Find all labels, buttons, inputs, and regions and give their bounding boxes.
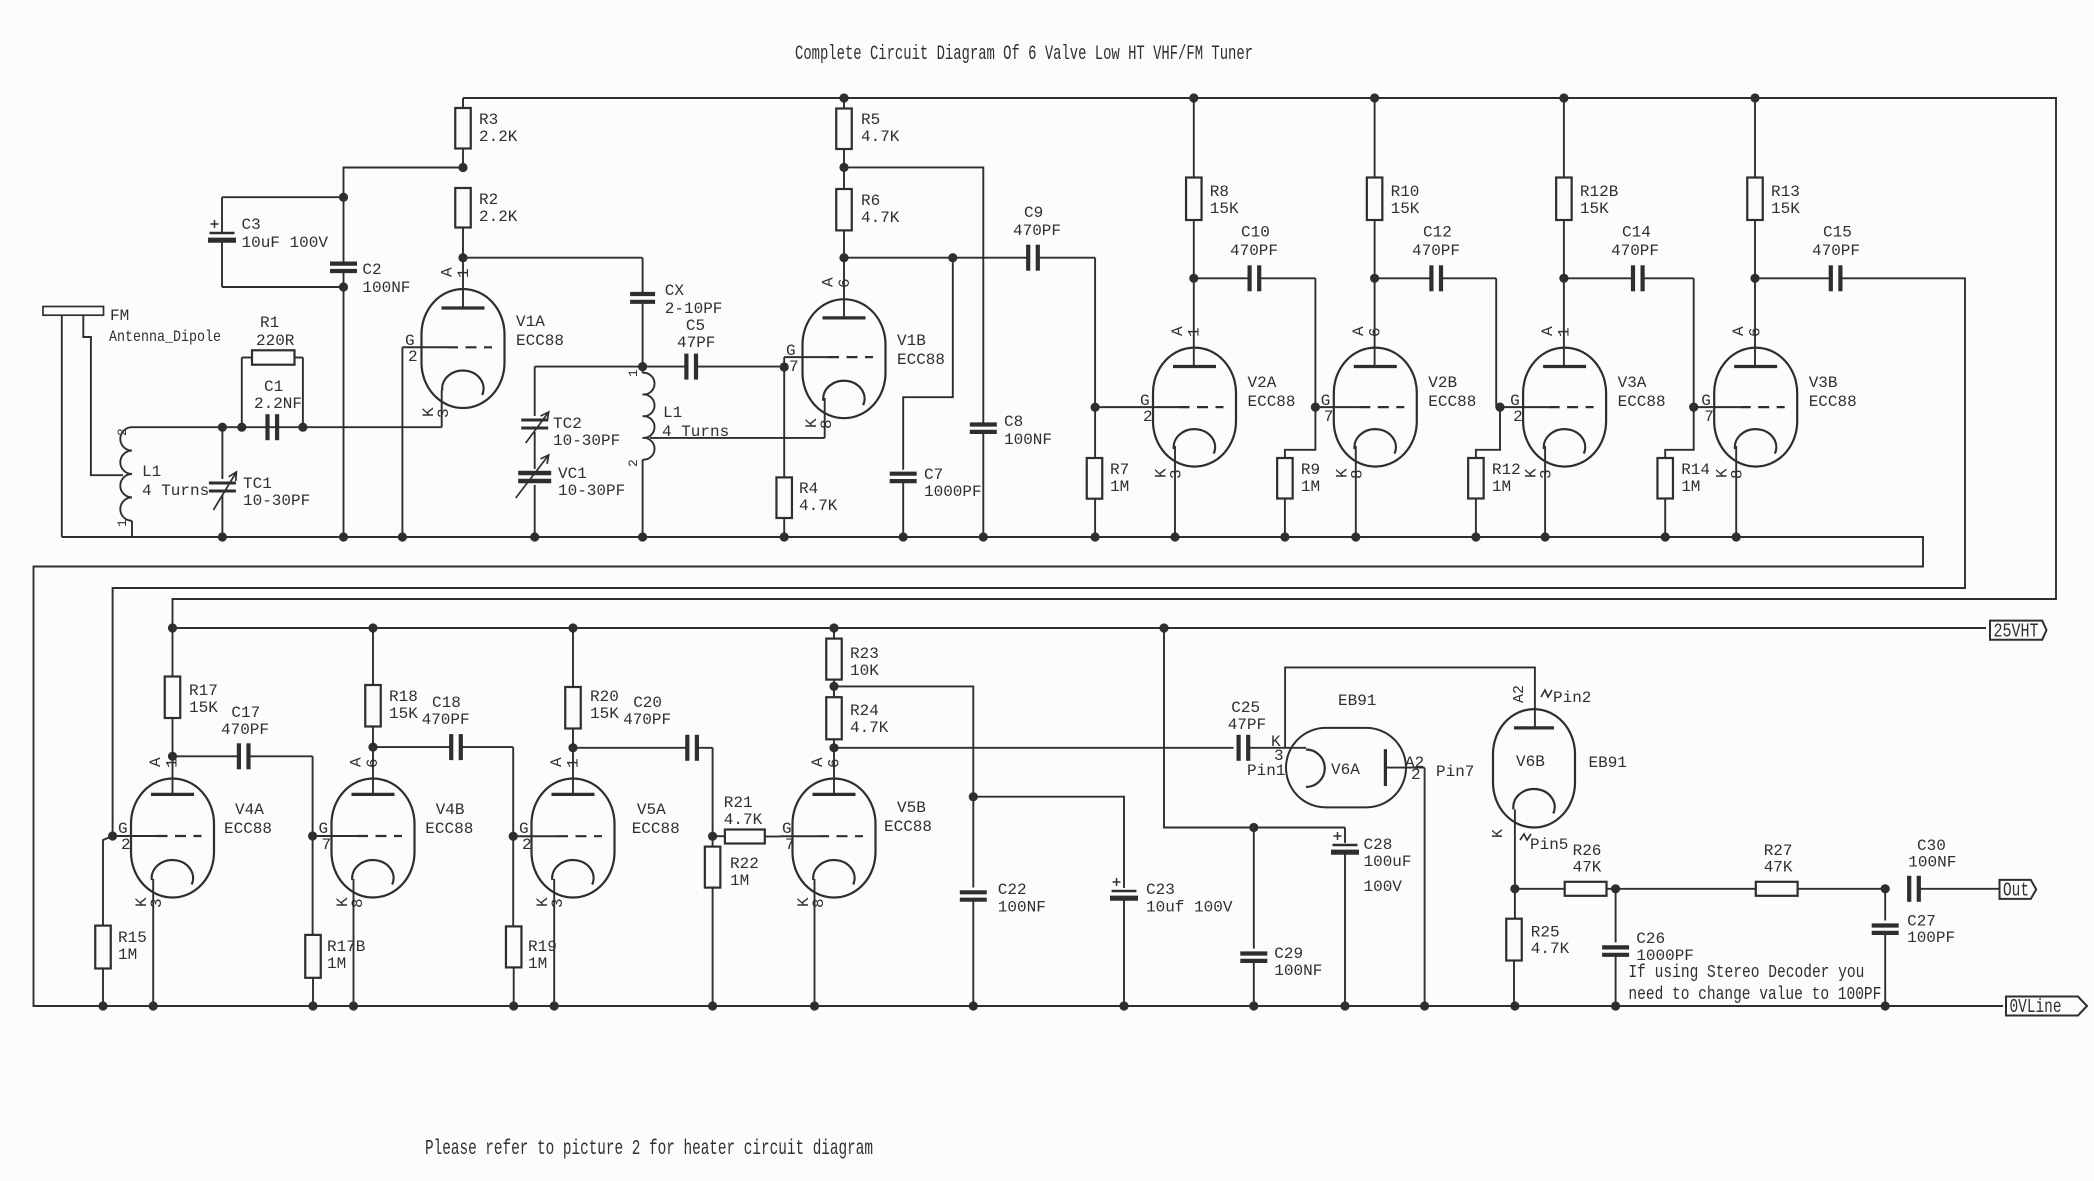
wire V6A anode to 0V bbox=[1424, 768, 1426, 1006]
wire V6B cathode bbox=[1514, 810, 1516, 889]
svg-text:R26: R26 bbox=[1573, 842, 1602, 860]
svg-text:Out: Out bbox=[2003, 880, 2029, 902]
svg-text:C18: C18 bbox=[432, 694, 461, 712]
capacitor C26 1000PF bbox=[1615, 889, 1617, 943]
svg-text:C29: C29 bbox=[1274, 945, 1303, 963]
svg-text:A: A bbox=[1169, 326, 1187, 336]
node dot V1A anode bbox=[458, 253, 467, 262]
triode V4B ECC88 bbox=[332, 779, 415, 898]
svg-text:100NF: 100NF bbox=[998, 899, 1046, 917]
svg-text:C5: C5 bbox=[686, 317, 705, 335]
svg-text:R10: R10 bbox=[1391, 183, 1420, 201]
node dot V4A grid bbox=[108, 831, 117, 840]
resistor R21 4.7K bbox=[713, 835, 725, 837]
capacitor C1 2.2NF bbox=[265, 414, 269, 440]
wire C12 to next grid bbox=[1495, 278, 1497, 407]
svg-text:470PF: 470PF bbox=[1812, 242, 1860, 260]
node dot V2B anode bbox=[1370, 274, 1379, 283]
wire CX node to TC2 bbox=[535, 366, 643, 368]
svg-text:7: 7 bbox=[789, 358, 799, 376]
node dot V4B grid bbox=[308, 831, 317, 840]
svg-text:4.7K: 4.7K bbox=[724, 811, 763, 829]
svg-text:R8: R8 bbox=[1210, 183, 1229, 201]
svg-text:1M: 1M bbox=[1492, 478, 1511, 496]
svg-text:Please refer to picture 2 for: Please refer to picture 2 for heater cir… bbox=[425, 1138, 873, 1161]
svg-text:7: 7 bbox=[1324, 408, 1334, 426]
svg-text:R3: R3 bbox=[479, 111, 498, 129]
svg-text:C30: C30 bbox=[1917, 837, 1946, 855]
triode V2A ECC88 bbox=[1153, 348, 1236, 467]
wire B+ rail to C28/C29 bbox=[1159, 623, 1168, 632]
svg-text:1000PF: 1000PF bbox=[924, 483, 982, 501]
svg-text:470PF: 470PF bbox=[422, 711, 470, 729]
svg-text:10uF 100V: 10uF 100V bbox=[242, 234, 329, 252]
svg-text:ECC88: ECC88 bbox=[516, 332, 564, 350]
capacitor C9 470PF bbox=[1026, 245, 1030, 271]
svg-text:R20: R20 bbox=[590, 688, 619, 706]
svg-text:6: 6 bbox=[826, 758, 844, 768]
svg-text:C27: C27 bbox=[1907, 913, 1936, 931]
svg-text:C14: C14 bbox=[1622, 224, 1651, 242]
wire V1A cathode bbox=[441, 390, 443, 427]
resistor R8 15K bbox=[1193, 98, 1195, 178]
svg-text:0VLine: 0VLine bbox=[2010, 996, 2062, 1018]
svg-text:C3: C3 bbox=[242, 216, 261, 234]
wire C14 to next grid bbox=[1693, 278, 1695, 407]
capacitor C5 47PF bbox=[643, 366, 687, 368]
svg-text:3: 3 bbox=[435, 408, 453, 418]
resistor R18 15K bbox=[368, 623, 377, 632]
wire R3/R2 junction to C3/C2 bbox=[344, 168, 464, 198]
node dot C29 branch bbox=[1249, 823, 1258, 832]
wire V1B anode to C9 bbox=[844, 257, 1028, 259]
svg-text:R12B: R12B bbox=[1580, 183, 1618, 201]
wire V3B cathode to ground bus bbox=[1735, 446, 1737, 537]
node dot V5B anode bbox=[829, 743, 838, 752]
svg-text:V5B: V5B bbox=[897, 799, 926, 817]
node dot CX bottom bbox=[638, 362, 647, 371]
node dot V2A anode bbox=[1189, 274, 1198, 283]
wire V4A cathode to 0V bbox=[152, 879, 154, 1006]
svg-text:1: 1 bbox=[1556, 327, 1574, 337]
svg-text:R17: R17 bbox=[189, 682, 218, 700]
svg-text:V3B: V3B bbox=[1809, 374, 1838, 392]
svg-text:CX: CX bbox=[665, 282, 685, 300]
capacitor C10 470PF bbox=[1194, 277, 1250, 279]
svg-text:1M: 1M bbox=[118, 946, 137, 964]
capacitor C29 100NF bbox=[1253, 828, 1255, 949]
capacitor C12 470PF bbox=[1375, 277, 1432, 279]
wire R24 junction to C25 bbox=[834, 747, 1234, 749]
svg-text:47PF: 47PF bbox=[1228, 716, 1266, 734]
svg-text:1: 1 bbox=[626, 369, 641, 377]
wire V1B grid jog bbox=[783, 357, 785, 367]
svg-text:15K: 15K bbox=[1210, 200, 1239, 218]
net flag 25VHT bbox=[1990, 621, 2047, 640]
svg-text:15K: 15K bbox=[1771, 200, 1800, 218]
capacitor C22 100NF bbox=[972, 797, 974, 888]
capacitor C15 470PF bbox=[1755, 277, 1831, 279]
svg-text:V2B: V2B bbox=[1428, 374, 1457, 392]
svg-text:C8: C8 bbox=[1004, 413, 1023, 431]
svg-text:A: A bbox=[820, 277, 838, 287]
wire L1 top to C1 node bbox=[132, 426, 222, 428]
svg-text:C10: C10 bbox=[1241, 224, 1270, 242]
svg-text:C9: C9 bbox=[1024, 204, 1043, 222]
svg-text:1: 1 bbox=[115, 519, 130, 527]
svg-text:4.7K: 4.7K bbox=[850, 719, 889, 737]
resistor R17B 1M bbox=[312, 836, 314, 935]
node dot C7 branch bbox=[948, 253, 957, 262]
svg-text:6: 6 bbox=[1747, 327, 1765, 337]
node dot V2A grid bbox=[1091, 403, 1100, 412]
svg-text:470PF: 470PF bbox=[623, 711, 671, 729]
capacitor C18 470PF bbox=[373, 746, 451, 748]
svg-text:If using Stereo Decoder you: If using Stereo Decoder you bbox=[1628, 963, 1864, 983]
svg-text:A2: A2 bbox=[1511, 685, 1528, 703]
svg-text:1M: 1M bbox=[1301, 478, 1320, 496]
svg-text:V1A: V1A bbox=[516, 313, 545, 331]
svg-text:R23: R23 bbox=[850, 645, 879, 663]
antenna FM dipole bbox=[43, 307, 104, 316]
svg-text:4 Turns: 4 Turns bbox=[142, 482, 209, 500]
resistor R23 10K bbox=[829, 623, 838, 632]
wire V2A cathode to ground bus bbox=[1174, 446, 1176, 537]
svg-text:6: 6 bbox=[364, 758, 382, 768]
node dot V3B grid bbox=[1689, 403, 1698, 412]
svg-text:L1: L1 bbox=[142, 463, 161, 481]
wire C2 bottom to ground bus bbox=[343, 287, 345, 537]
resistor R9 1M bbox=[1285, 407, 1316, 458]
svg-text:V1B: V1B bbox=[897, 332, 926, 350]
svg-text:7: 7 bbox=[1704, 408, 1714, 426]
svg-text:100V: 100V bbox=[1364, 878, 1403, 896]
resistor R24 4.7K bbox=[826, 697, 842, 739]
trimmer capacitor TC2 10-30PF bbox=[534, 367, 536, 416]
resistor R4 4.7K bbox=[783, 367, 785, 477]
trimmer capacitor TC1 10-30PF bbox=[221, 427, 223, 479]
svg-text:VC1: VC1 bbox=[558, 465, 587, 483]
svg-text:4.7K: 4.7K bbox=[1531, 940, 1570, 958]
net flag 0VLine bbox=[2006, 997, 2087, 1016]
svg-text:Antenna_Dipole: Antenna_Dipole bbox=[109, 328, 221, 346]
resistor R7 1M bbox=[1094, 407, 1096, 458]
node dot V5B grid network bbox=[708, 832, 717, 841]
svg-text:1M: 1M bbox=[327, 955, 346, 973]
node dot V6B cathode bbox=[1510, 884, 1519, 893]
resistor R14 1M bbox=[1665, 407, 1694, 458]
svg-text:47PF: 47PF bbox=[677, 334, 715, 352]
wire feedback line C15 output to V4A grid bbox=[113, 278, 1965, 836]
svg-text:470PF: 470PF bbox=[1013, 222, 1061, 240]
triode V5A ECC88 bbox=[532, 779, 615, 898]
svg-text:100NF: 100NF bbox=[362, 279, 410, 297]
svg-text:220R: 220R bbox=[256, 332, 295, 350]
svg-text:10-30PF: 10-30PF bbox=[243, 492, 310, 510]
svg-text:ECC88: ECC88 bbox=[897, 351, 945, 369]
svg-text:100NF: 100NF bbox=[1908, 854, 1956, 872]
wire V1A anode to CX bbox=[463, 257, 643, 259]
svg-text:R5: R5 bbox=[861, 111, 880, 129]
svg-text:V4B: V4B bbox=[436, 801, 465, 819]
svg-text:A: A bbox=[439, 267, 457, 277]
svg-text:C2: C2 bbox=[362, 261, 381, 279]
svg-text:V4A: V4A bbox=[235, 801, 264, 819]
capacitor C30 100NF bbox=[1907, 876, 1911, 902]
capacitor C2 100NF bbox=[343, 197, 345, 263]
svg-text:A: A bbox=[348, 757, 366, 767]
svg-text:R27: R27 bbox=[1764, 842, 1793, 860]
inductor L1 4 turns interstage bbox=[643, 373, 655, 460]
resistor R17 15K bbox=[168, 623, 177, 632]
node dot V1B anode bbox=[839, 253, 848, 262]
svg-text:6: 6 bbox=[1366, 327, 1384, 337]
svg-text:10-30PF: 10-30PF bbox=[553, 432, 620, 450]
node dot R27/C27/C30 bbox=[1881, 884, 1890, 893]
resistor R20 15K bbox=[568, 623, 577, 632]
resistor R10 15K bbox=[1374, 98, 1376, 178]
svg-text:100uF: 100uF bbox=[1364, 853, 1412, 871]
svg-text:2.2K: 2.2K bbox=[479, 128, 518, 146]
svg-text:R12: R12 bbox=[1492, 461, 1521, 479]
svg-text:A: A bbox=[1539, 326, 1557, 336]
node dot R23/R24 junction bbox=[829, 682, 838, 691]
wire C7 branch bbox=[903, 258, 953, 470]
svg-text:C12: C12 bbox=[1423, 224, 1452, 242]
svg-text:V6B: V6B bbox=[1516, 753, 1545, 771]
svg-text:4.7K: 4.7K bbox=[799, 497, 838, 515]
svg-text:R2: R2 bbox=[479, 191, 498, 209]
triode V1B ECC88 bbox=[803, 299, 886, 418]
svg-text:Pin7: Pin7 bbox=[1436, 763, 1474, 781]
svg-text:R19: R19 bbox=[528, 938, 557, 956]
svg-text:3: 3 bbox=[1538, 469, 1556, 479]
svg-text:K: K bbox=[1490, 829, 1507, 838]
resistor R27 47K bbox=[1756, 882, 1798, 896]
svg-text:100NF: 100NF bbox=[1274, 962, 1322, 980]
node dot V3B anode bbox=[1750, 274, 1759, 283]
wire ground bus top section with wrap to 0V line bbox=[34, 537, 2004, 1006]
resistor R15 1M bbox=[103, 836, 113, 926]
node dot V3A anode bbox=[1559, 274, 1568, 283]
svg-text:1M: 1M bbox=[730, 872, 749, 890]
svg-text:C26: C26 bbox=[1636, 930, 1665, 948]
svg-text:FM: FM bbox=[110, 307, 129, 325]
wire V5A cathode to 0V bbox=[553, 879, 555, 1006]
svg-text:8: 8 bbox=[1348, 469, 1366, 479]
wire V5B cathode to 0V bbox=[814, 879, 816, 1006]
svg-text:R7: R7 bbox=[1110, 461, 1129, 479]
svg-text:R13: R13 bbox=[1771, 183, 1800, 201]
svg-text:2: 2 bbox=[522, 836, 532, 854]
node dot V5A grid bbox=[509, 832, 518, 841]
triode V1A ECC88 bbox=[422, 289, 505, 408]
capacitor C17 470PF bbox=[173, 755, 239, 757]
resistor R12 1M bbox=[1476, 407, 1500, 458]
triode V2B ECC88 bbox=[1334, 348, 1417, 467]
capacitor C20 470PF bbox=[573, 747, 687, 749]
node dot V4B anode bbox=[368, 743, 377, 752]
svg-text:7: 7 bbox=[785, 836, 795, 854]
svg-text:100NF: 100NF bbox=[1004, 431, 1052, 449]
svg-text:TC2: TC2 bbox=[553, 415, 582, 433]
wire HT top bus bbox=[173, 98, 2057, 628]
svg-text:C20: C20 bbox=[633, 694, 662, 712]
svg-text:10-30PF: 10-30PF bbox=[558, 482, 625, 500]
svg-text:25VHT: 25VHT bbox=[1994, 620, 2039, 642]
svg-text:R6: R6 bbox=[861, 192, 880, 210]
svg-text:470PF: 470PF bbox=[1611, 242, 1659, 260]
svg-text:R22: R22 bbox=[730, 855, 759, 873]
wire V1B cathode to L1 tap bbox=[824, 398, 826, 438]
capacitor C28 100uF 100V electrolytic bbox=[1344, 828, 1346, 844]
svg-text:R24: R24 bbox=[850, 702, 879, 720]
resistor R22 1M bbox=[712, 836, 714, 846]
svg-text:15K: 15K bbox=[189, 699, 218, 717]
svg-text:ECC88: ECC88 bbox=[632, 820, 680, 838]
svg-text:2: 2 bbox=[1513, 408, 1523, 426]
node dot L1/TC1/C1 bbox=[218, 423, 227, 432]
svg-text:C22: C22 bbox=[998, 881, 1027, 899]
svg-text:47K: 47K bbox=[1573, 859, 1602, 877]
svg-text:R14: R14 bbox=[1681, 461, 1710, 479]
svg-text:ECC88: ECC88 bbox=[884, 818, 932, 836]
svg-text:2: 2 bbox=[626, 459, 641, 467]
svg-text:15K: 15K bbox=[1580, 200, 1609, 218]
svg-text:3: 3 bbox=[1168, 469, 1186, 479]
svg-text:V3A: V3A bbox=[1618, 374, 1647, 392]
svg-text:EB91: EB91 bbox=[1589, 754, 1627, 772]
svg-text:2-10PF: 2-10PF bbox=[665, 300, 723, 318]
node dot V5A anode bbox=[568, 743, 577, 752]
capacitor C25 47PF bbox=[1236, 735, 1240, 761]
svg-text:15K: 15K bbox=[389, 705, 418, 723]
node dot R5/R6 junction bbox=[839, 163, 848, 172]
svg-text:7: 7 bbox=[322, 836, 332, 854]
node dot below R3 bbox=[458, 163, 467, 172]
capacitor C8 100NF bbox=[970, 422, 997, 426]
diode V6B EB91 bbox=[1493, 709, 1575, 827]
wire C17 to V4B grid bbox=[312, 756, 314, 836]
resistor R19 1M bbox=[512, 836, 514, 926]
svg-text:10K: 10K bbox=[850, 662, 879, 680]
svg-text:C23: C23 bbox=[1146, 881, 1175, 899]
resistor R26 47K bbox=[1515, 888, 1565, 890]
svg-text:8: 8 bbox=[810, 898, 828, 908]
capacitor C27 100PF bbox=[1884, 889, 1886, 921]
wire C1 node bbox=[222, 426, 303, 428]
svg-text:C7: C7 bbox=[924, 466, 943, 484]
svg-text:ECC88: ECC88 bbox=[1809, 393, 1857, 411]
svg-text:1M: 1M bbox=[1110, 478, 1129, 496]
wire V4B cathode to 0V bbox=[353, 879, 355, 1006]
svg-text:47K: 47K bbox=[1764, 859, 1793, 877]
svg-text:A: A bbox=[1730, 326, 1748, 336]
svg-text:C1: C1 bbox=[264, 378, 283, 396]
wire R26 to R27 bbox=[1616, 888, 1756, 890]
triode V4A ECC88 bbox=[131, 779, 214, 898]
svg-text:V2A: V2A bbox=[1248, 374, 1277, 392]
svg-text:3: 3 bbox=[148, 898, 166, 908]
svg-text:ECC88: ECC88 bbox=[425, 820, 473, 838]
svg-text:R17B: R17B bbox=[327, 938, 365, 956]
svg-text:1: 1 bbox=[565, 758, 583, 768]
svg-text:C15: C15 bbox=[1823, 224, 1852, 242]
svg-text:C25: C25 bbox=[1231, 699, 1260, 717]
svg-text:2: 2 bbox=[115, 428, 130, 436]
svg-text:Pin5: Pin5 bbox=[1530, 836, 1568, 854]
triode V3A ECC88 bbox=[1523, 348, 1606, 467]
svg-text:4.7K: 4.7K bbox=[861, 209, 900, 227]
svg-text:R9: R9 bbox=[1301, 461, 1320, 479]
capacitor C14 470PF bbox=[1564, 277, 1633, 279]
svg-text:2.2NF: 2.2NF bbox=[254, 395, 302, 413]
resistor R25 4.7K bbox=[1514, 889, 1516, 919]
wire C9 to V2A grid node bbox=[1094, 258, 1096, 408]
resistor R3 2.2K bbox=[462, 98, 464, 108]
svg-text:10uf 100V: 10uf 100V bbox=[1146, 899, 1233, 917]
resistor R13 15K bbox=[1754, 98, 1756, 178]
wire V1A grid to ground bus bbox=[401, 347, 403, 537]
triode V3B ECC88 bbox=[1714, 348, 1797, 467]
svg-text:TC1: TC1 bbox=[243, 475, 272, 493]
resistor R1 220R bbox=[241, 358, 243, 428]
svg-text:8: 8 bbox=[349, 898, 367, 908]
svg-text:A: A bbox=[147, 757, 165, 767]
svg-text:2: 2 bbox=[121, 836, 131, 854]
capacitor C3 10uF 100V electrolytic bbox=[221, 197, 223, 233]
wire V2B cathode to ground bus bbox=[1355, 446, 1357, 537]
wire C1 node to V1A cathode bbox=[303, 426, 442, 428]
wire C18 to V5A grid bbox=[512, 747, 514, 836]
svg-text:3: 3 bbox=[549, 898, 567, 908]
svg-text:1: 1 bbox=[455, 268, 473, 278]
svg-text:R4: R4 bbox=[799, 480, 818, 498]
resistor R6 4.7K bbox=[836, 189, 852, 230]
svg-text:2: 2 bbox=[1411, 766, 1421, 784]
inductor L1 antenna 4 turns bbox=[120, 427, 132, 521]
svg-text:C28: C28 bbox=[1364, 836, 1393, 854]
svg-text:1M: 1M bbox=[1681, 478, 1700, 496]
wire V3A cathode to ground bus bbox=[1544, 446, 1546, 537]
svg-text:Pin1: Pin1 bbox=[1247, 762, 1285, 780]
wire R23/R24 junction to C22 branch bbox=[834, 686, 973, 796]
capacitor C23 10uf 100V electrolytic bbox=[973, 797, 1124, 888]
capacitor CX 2-10PF bbox=[642, 258, 644, 293]
svg-text:1M: 1M bbox=[528, 955, 547, 973]
svg-text:C17: C17 bbox=[231, 704, 260, 722]
svg-text:EB91: EB91 bbox=[1338, 692, 1376, 710]
diode V6A EB91 bbox=[1286, 728, 1406, 808]
net flag Out bbox=[2000, 880, 2037, 899]
svg-text:8: 8 bbox=[818, 419, 836, 429]
node dot C22/C23 branch bbox=[969, 792, 978, 801]
capacitor C7 1000PF bbox=[890, 472, 917, 476]
wire C20 to V5B grid network bbox=[712, 748, 714, 836]
svg-text:8: 8 bbox=[1729, 469, 1747, 479]
svg-text:R15: R15 bbox=[118, 929, 147, 947]
wire R5/R6 junction to C8 bbox=[844, 167, 983, 423]
variable capacitor VC1 10-30PF bbox=[534, 432, 536, 469]
svg-text:V6A: V6A bbox=[1331, 761, 1360, 779]
svg-text:A: A bbox=[809, 757, 827, 767]
svg-text:ECC88: ECC88 bbox=[1248, 393, 1296, 411]
svg-text:A: A bbox=[548, 757, 566, 767]
svg-text:4.7K: 4.7K bbox=[861, 128, 900, 146]
svg-text:R18: R18 bbox=[389, 688, 418, 706]
svg-text:6: 6 bbox=[836, 278, 854, 288]
node dot V4A anode bbox=[168, 752, 177, 761]
